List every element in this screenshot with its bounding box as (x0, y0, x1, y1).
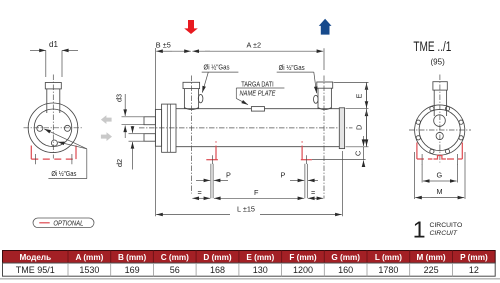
left view port hole right (64, 125, 70, 131)
svg-text:L ±15: L ±15 (237, 204, 255, 213)
svg-text:d2: d2 (115, 159, 124, 167)
svg-text:NAME PLATE: NAME PLATE (240, 89, 276, 98)
equal mark left (192, 188, 210, 198)
svg-text:E: E (355, 94, 364, 99)
svg-text:12: 12 (469, 265, 479, 275)
svg-text:225: 225 (424, 265, 439, 275)
svg-text:56: 56 (170, 265, 180, 275)
svg-text:D (mm): D (mm) (203, 253, 231, 262)
table data row (3, 263, 496, 276)
svg-text:G (mm): G (mm) (331, 253, 360, 262)
leader label Oi 1/2 Gas (left view) (44, 129, 87, 179)
dimension M (414, 152, 465, 199)
left view outer circle (28, 103, 78, 153)
svg-text:P (mm): P (mm) (460, 253, 488, 262)
svg-text:P: P (226, 170, 231, 179)
svg-text:169: 169 (125, 265, 140, 275)
svg-text:CIRCUITO: CIRCUITO (430, 222, 463, 229)
dimension P left (196, 170, 231, 180)
svg-text:C: C (354, 151, 363, 156)
svg-text:=: = (198, 188, 202, 197)
dimension D (355, 109, 367, 147)
dimension d1 (30, 40, 78, 77)
svg-text:M (mm): M (mm) (417, 253, 446, 262)
dimension G (422, 165, 457, 183)
shell body (176, 109, 339, 147)
svg-text:TARGA DATI: TARGA DATI (241, 80, 274, 89)
right view center hole small (436, 132, 443, 139)
scan shadow under table (0, 278, 500, 280)
optional bottom port left (red) (206, 141, 218, 164)
svg-text:Øi ½"Gas: Øi ½"Gas (279, 63, 305, 72)
svg-text:1530: 1530 (79, 265, 99, 275)
main centerline (139, 127, 353, 129)
dimension A +-2 (192, 41, 324, 71)
inlet stub lower (144, 134, 155, 142)
right view pipe body (434, 90, 446, 116)
svg-text:Модель: Модель (19, 253, 51, 262)
svg-text:130: 130 (253, 265, 268, 275)
left view horizontal centerline (24, 127, 83, 129)
svg-text:A (mm): A (mm) (75, 253, 103, 262)
svg-text:d3: d3 (115, 94, 124, 102)
right side extension lines (334, 82, 369, 146)
circuit count note (413, 216, 462, 242)
right view horizontal centerline (409, 129, 471, 131)
svg-text:TME ../1: TME ../1 (413, 39, 451, 54)
svg-text:d1: d1 (49, 40, 58, 49)
port level extension line to C (312, 159, 366, 161)
svg-text:B ±5: B ±5 (156, 40, 171, 49)
svg-text:1: 1 (413, 216, 426, 242)
svg-text:Øi ½"Gas: Øi ½"Gas (204, 63, 230, 72)
dimension B +-5 (155, 40, 190, 216)
header column dividers (68, 251, 453, 264)
svg-text:OPTIONAL: OPTIONAL (53, 219, 83, 228)
red inlet arrow (184, 20, 198, 34)
left view port hole bottom (51, 140, 57, 146)
data values (16, 265, 479, 275)
svg-text:(95): (95) (431, 58, 446, 67)
right view vertical centerline (439, 75, 441, 163)
optional red bracket right view (417, 143, 462, 166)
gray flow arrow in (right) (101, 132, 112, 141)
svg-text:TME 95/1: TME 95/1 (16, 265, 55, 275)
OPTIONAL legend pill (33, 218, 94, 228)
left view pipe collar (45, 83, 61, 89)
inlet stub upper (144, 117, 155, 125)
right view pipe collar (433, 82, 447, 90)
svg-text:G: G (437, 171, 443, 180)
name plate on shell (251, 107, 264, 112)
right view center hole big (434, 115, 446, 127)
left view pipe body (47, 89, 60, 113)
blue outlet arrow (319, 19, 332, 35)
svg-text:168: 168 (210, 265, 225, 275)
svg-text:C (mm): C (mm) (161, 253, 189, 262)
right view inner circle (419, 109, 460, 150)
gray flow arrow out (left) (101, 115, 112, 124)
svg-text:=: = (311, 188, 315, 197)
header labels (19, 253, 488, 262)
optional red bracket left view (31, 146, 76, 165)
svg-text:P: P (281, 170, 286, 179)
svg-text:D: D (355, 125, 364, 130)
svg-text:L (mm): L (mm) (375, 253, 402, 262)
table header row (3, 251, 496, 264)
P extension double lines left (211, 164, 213, 199)
svg-text:F: F (254, 188, 259, 197)
equal mark right (308, 188, 323, 198)
svg-text:Øi ½"Gas: Øi ½"Gas (51, 169, 76, 178)
svg-text:1780: 1780 (378, 265, 398, 275)
svg-text:1200: 1200 (293, 265, 313, 275)
svg-text:M: M (437, 187, 443, 196)
right nozzle N2 (314, 76, 333, 199)
dimension F (214, 188, 304, 198)
label Oi 1/2 Gas right nozzle (277, 63, 317, 93)
left view port hole left (37, 125, 43, 131)
TARGA DATI / NAME PLATE label (236, 80, 284, 105)
svg-text:B (mm): B (mm) (118, 253, 146, 262)
main flange (162, 104, 176, 152)
dimension P right (281, 170, 319, 180)
left view vertical centerline (52, 75, 54, 159)
dimension d2 (115, 126, 144, 170)
shell end cap (339, 108, 344, 149)
dimension C (354, 136, 364, 167)
P extension double lines right (305, 164, 307, 199)
tube sheet plate (155, 109, 161, 146)
right view outer circle (415, 105, 465, 155)
right view bolt holes (416, 107, 463, 154)
left view inner circle (34, 109, 72, 147)
dimension E (355, 82, 367, 108)
dimension d3 (115, 94, 145, 138)
optional bottom port right (red) (301, 141, 312, 164)
left nozzle N1 (183, 76, 203, 194)
dimension L +-15 (156, 151, 342, 216)
svg-text:E (mm): E (mm) (246, 253, 274, 262)
svg-text:160: 160 (338, 265, 353, 275)
label Oi 1/2 Gas left nozzle (202, 63, 239, 93)
svg-text:F (mm): F (mm) (289, 253, 317, 262)
svg-text:CIRCUIT: CIRCUIT (430, 230, 458, 237)
svg-text:A ±2: A ±2 (247, 41, 262, 50)
